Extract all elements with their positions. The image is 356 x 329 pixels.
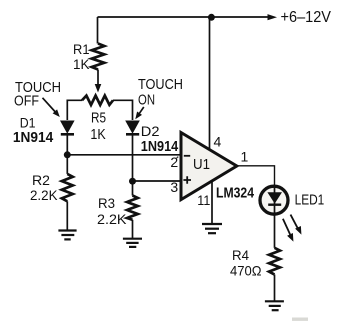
scan smudge bottom right xyxy=(292,318,308,321)
wire R1 top xyxy=(97,17,99,44)
svg-text:U1: U1 xyxy=(193,156,210,173)
svg-text:TOUCH: TOUCH xyxy=(138,76,183,93)
svg-text:R3: R3 xyxy=(98,195,115,211)
label +6-12V xyxy=(281,9,332,26)
node supply junction xyxy=(208,14,215,21)
wire node A to pin 2 xyxy=(67,154,180,156)
wire LED to R4 xyxy=(274,216,276,248)
wire output pin 1 to LED xyxy=(237,166,275,185)
wire top supply rail xyxy=(98,16,273,18)
svg-text:1N914: 1N914 xyxy=(141,138,179,155)
wire pin 11 to ground xyxy=(211,181,213,224)
svg-text:2: 2 xyxy=(170,154,178,170)
label R2 2.2K xyxy=(30,172,58,203)
resistor R2 xyxy=(62,174,73,201)
LED1 xyxy=(260,185,288,216)
label D2 1N914 xyxy=(141,123,179,155)
node A (D1/R2/pin2 junction) xyxy=(64,151,71,158)
wire R5 left to D1 xyxy=(67,100,82,120)
supply arrow +6-12V xyxy=(268,14,278,20)
ground pin 11 xyxy=(202,224,222,233)
pin label 1 xyxy=(241,149,249,165)
op-amp plus sign xyxy=(183,176,191,184)
pin label 2 xyxy=(170,154,178,170)
wire D1 to node A xyxy=(66,136,68,155)
label R1 1K xyxy=(73,41,90,72)
wire node B to pin 3 xyxy=(133,180,181,182)
resistor R5 xyxy=(82,96,113,105)
op-amp U1 xyxy=(181,133,237,200)
wire node A to R2 xyxy=(66,155,68,174)
svg-text:R4: R4 xyxy=(232,247,249,263)
resistor R3 xyxy=(127,196,138,220)
svg-text:ON: ON xyxy=(138,92,155,109)
node B (D2/R3/pin3 junction) xyxy=(129,178,136,185)
svg-text:3: 3 xyxy=(170,179,178,195)
resistor R1 xyxy=(92,44,105,70)
LED emission arrows xyxy=(283,215,302,242)
svg-text:4: 4 xyxy=(214,133,222,149)
pin label 11 xyxy=(197,192,210,208)
label R4 470ohm xyxy=(230,247,262,278)
svg-text:1: 1 xyxy=(241,149,249,165)
label TOUCH ON xyxy=(138,76,183,109)
wire node B to R3 xyxy=(132,181,134,195)
svg-text:D2: D2 xyxy=(141,123,160,139)
wire R1 bottom with arrow onto R5 xyxy=(95,70,102,93)
ground R2 xyxy=(58,231,76,240)
ground R3 xyxy=(123,239,142,247)
svg-text:R5: R5 xyxy=(91,110,106,127)
svg-text:1N914: 1N914 xyxy=(13,129,54,146)
resistor R4 xyxy=(269,248,280,275)
wire R4 to ground xyxy=(274,275,276,302)
wire R5 right to D2 xyxy=(113,100,133,120)
svg-text:OFF: OFF xyxy=(14,93,39,110)
label LED1 xyxy=(295,192,325,209)
label U1 xyxy=(193,156,210,173)
label R5 1K xyxy=(90,110,106,143)
svg-text:470Ω: 470Ω xyxy=(230,262,262,278)
label D1 1N914 xyxy=(13,115,54,146)
diode D1 xyxy=(60,121,75,135)
svg-text:11: 11 xyxy=(197,192,210,208)
svg-text:1K: 1K xyxy=(90,126,105,143)
label TOUCH OFF xyxy=(14,79,61,110)
svg-text:R2: R2 xyxy=(32,172,50,188)
wire R3 to ground xyxy=(132,220,134,239)
svg-text:LM324: LM324 xyxy=(216,185,255,202)
label R3 2.2K xyxy=(97,195,127,227)
diode D2 xyxy=(125,121,140,135)
op-amp minus sign xyxy=(184,155,190,157)
wire R2 to ground xyxy=(66,201,68,230)
arrow touch-on to D2 xyxy=(135,107,144,119)
svg-text:2.2K: 2.2K xyxy=(97,211,127,227)
svg-text:1K: 1K xyxy=(73,56,90,72)
label LM324 xyxy=(216,185,255,202)
wire pin 4 from supply xyxy=(209,17,211,150)
arrow touch-off to D1 xyxy=(43,98,60,117)
pin label 4 xyxy=(214,133,222,149)
svg-text:2.2K: 2.2K xyxy=(30,187,58,203)
pin label 3 xyxy=(170,179,178,195)
svg-text:R1: R1 xyxy=(73,41,90,57)
ground R4 xyxy=(265,301,284,310)
svg-text:+6–12V: +6–12V xyxy=(281,9,332,26)
svg-text:LED1: LED1 xyxy=(295,192,325,209)
wire D2 to node B xyxy=(132,136,134,182)
